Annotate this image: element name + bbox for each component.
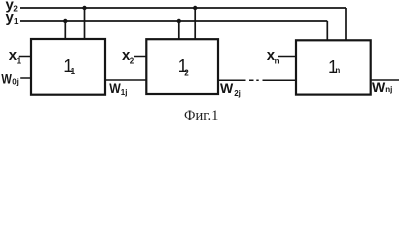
svg-text:W: W	[1, 71, 12, 87]
svg-text:n: n	[335, 66, 340, 75]
svg-text:1: 1	[17, 56, 22, 65]
svg-text:2j: 2j	[234, 89, 241, 98]
svg-text:W: W	[109, 80, 121, 96]
svg-text:0j: 0j	[12, 78, 19, 87]
svg-text:1: 1	[14, 17, 19, 26]
svg-text:2: 2	[130, 56, 135, 65]
svg-text:2: 2	[184, 68, 189, 77]
svg-text:1j: 1j	[121, 88, 128, 97]
svg-text:nj: nj	[385, 85, 392, 94]
svg-text:Фиг.1: Фиг.1	[184, 108, 218, 124]
svg-text:n: n	[275, 56, 280, 65]
svg-text:1: 1	[71, 67, 76, 76]
svg-text:W: W	[372, 79, 386, 95]
svg-text:W: W	[220, 80, 234, 96]
svg-text:2: 2	[13, 5, 18, 14]
